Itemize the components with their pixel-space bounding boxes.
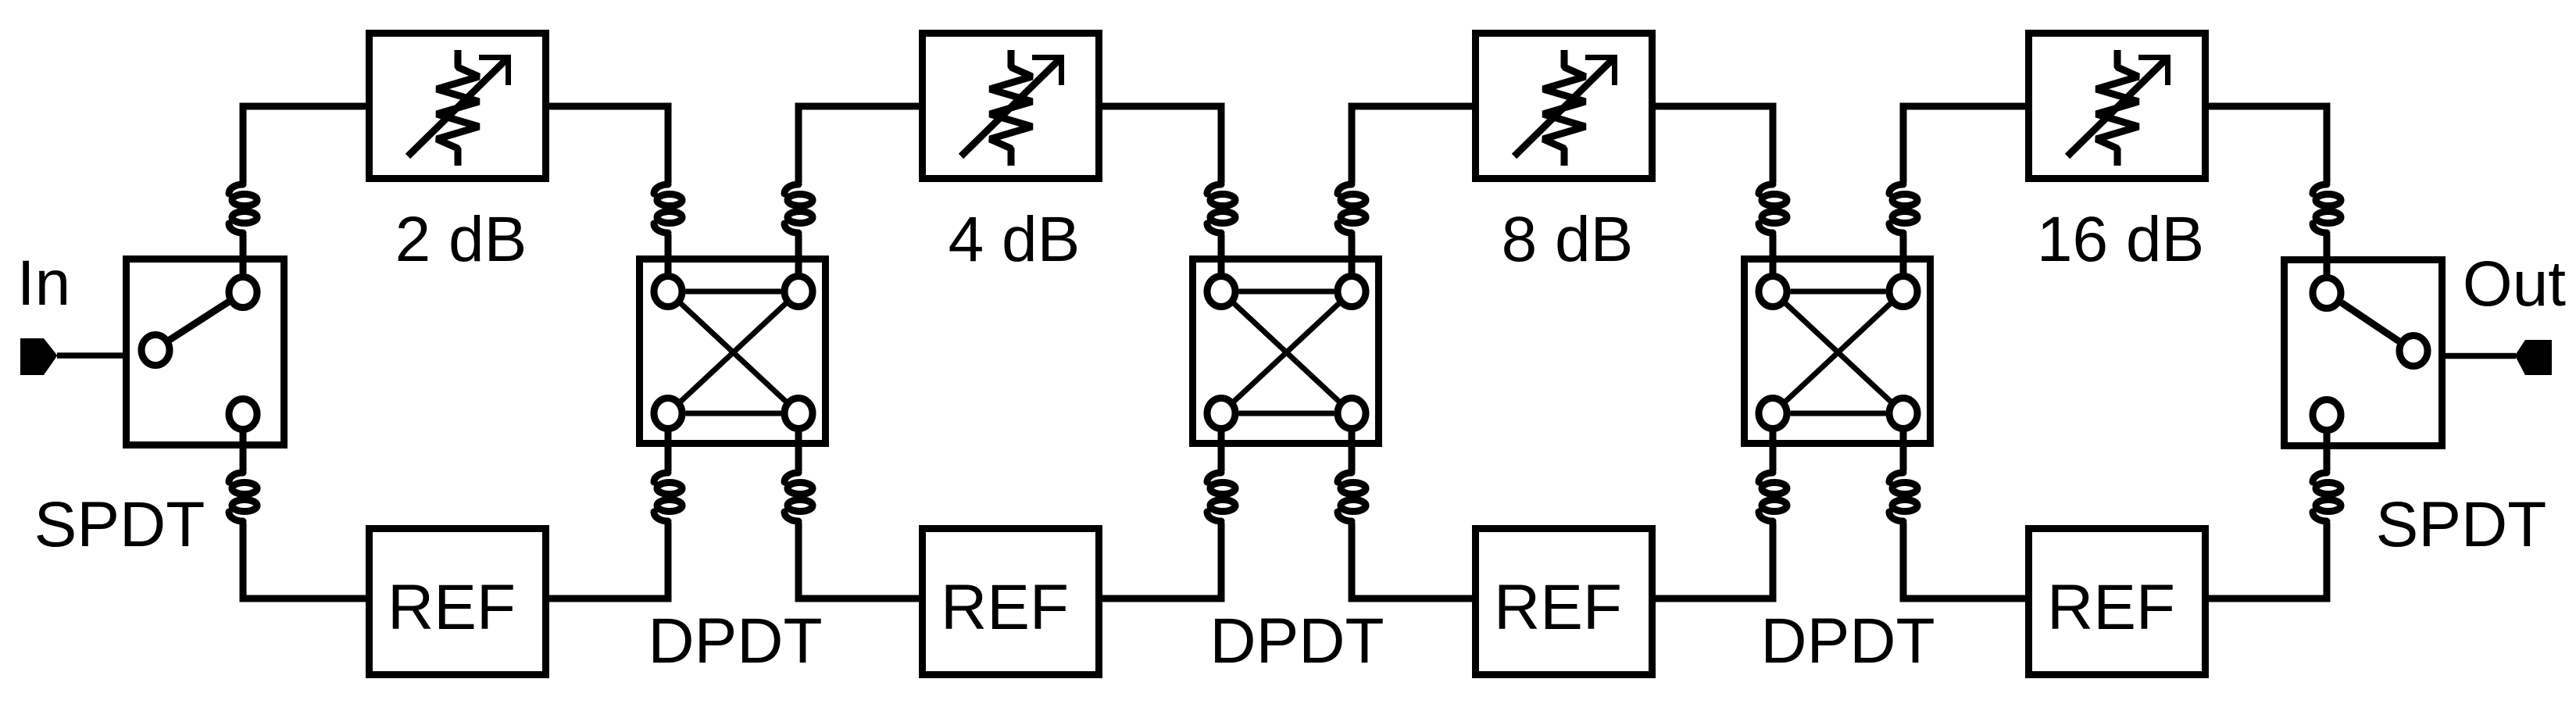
wire: A3 output to U3 top-left pole	[1654, 106, 1773, 275]
inductor L3	[654, 184, 682, 233]
wire: In terminal to S1 common	[57, 352, 123, 359]
svg-text:REF: REF	[941, 572, 1069, 643]
svg-text:REF: REF	[2047, 572, 2175, 643]
SPDT switch S1 (input switch)	[127, 259, 284, 445]
svg-text:REF: REF	[388, 572, 516, 643]
svg-text:16 dB: 16 dB	[2037, 204, 2204, 275]
reference path box REF3	[1476, 529, 1652, 675]
inductor L2	[229, 473, 257, 521]
wire: A2 output to U2 top-left pole	[1101, 106, 1221, 275]
wire: U1 bottom-right pole to REF2 input	[799, 431, 920, 599]
inductor L8	[1338, 184, 1366, 233]
inductor L16	[2313, 473, 2341, 521]
attenuator A2 (4 dB variable attenuator)	[923, 34, 1099, 179]
svg-text:8 dB: 8 dB	[1502, 204, 1634, 275]
wire: S1 top throw up to top rail into A1 input	[243, 106, 367, 274]
wire: S1 bottom throw down to bottom rail into REF1 input	[243, 432, 367, 599]
wire: U3 bottom-right pole to REF4 input	[1903, 431, 2027, 599]
attenuator A4 (16 dB variable attenuator)	[2029, 34, 2206, 179]
wire: A1 output to U1 top-left pole	[548, 106, 668, 275]
svg-text:SPDT: SPDT	[34, 489, 205, 560]
svg-text:DPDT: DPDT	[1209, 606, 1384, 677]
inductor L5	[654, 473, 682, 521]
wire: REF2 output to U2 bottom-left pole	[1101, 431, 1221, 599]
DPDT switch U2	[1193, 259, 1379, 444]
wire: REF1 output to U1 bottom-left pole	[548, 431, 668, 599]
attenuator A1 (2 dB variable attenuator)	[370, 34, 546, 179]
wire: U3 top-right pole to A4 input	[1903, 106, 2027, 275]
svg-text:In: In	[17, 248, 70, 319]
input terminal (In port)	[20, 338, 57, 375]
inductor L15	[2313, 184, 2341, 233]
wire: REF4 output to S2 bottom throw	[2207, 433, 2327, 599]
svg-text:DPDT: DPDT	[1760, 606, 1935, 677]
output terminal (Out port)	[2515, 340, 2552, 375]
SPDT switch S2 (output switch)	[2285, 260, 2442, 446]
svg-text:REF: REF	[1494, 572, 1622, 643]
wire: S2 common to Out terminal	[2446, 353, 2516, 359]
wire: U1 top-right pole to A2 input	[799, 106, 920, 275]
svg-text:SPDT: SPDT	[2376, 489, 2547, 560]
inductor L6	[784, 473, 813, 521]
reference path box REF4	[2029, 529, 2206, 675]
inductor L13	[1759, 473, 1787, 521]
wire: REF3 output to U3 bottom-left pole	[1654, 431, 1773, 599]
inductor L7	[1207, 184, 1235, 233]
inductor L10	[1338, 473, 1366, 521]
wire: U2 top-right pole to A3 input	[1352, 106, 1474, 275]
DPDT switch U1	[640, 259, 826, 444]
inductor L9	[1207, 473, 1235, 521]
svg-text:2 dB: 2 dB	[395, 204, 527, 275]
wire: U2 bottom-right pole to REF3 input	[1352, 431, 1474, 599]
inductor L12	[1889, 184, 1917, 233]
inductor L14	[1889, 473, 1917, 521]
reference path box REF2	[923, 529, 1099, 675]
attenuator A3 (8 dB variable attenuator)	[1476, 34, 1652, 179]
wire: A4 output to S2 top throw	[2207, 106, 2327, 276]
inductor L11	[1759, 184, 1787, 233]
svg-text:Out: Out	[2463, 248, 2566, 320]
DPDT switch U3	[1745, 259, 1931, 444]
reference path box REF1	[370, 529, 546, 675]
inductor L1	[229, 184, 257, 233]
inductor L4	[784, 184, 813, 233]
svg-text:DPDT: DPDT	[648, 606, 822, 677]
svg-text:4 dB: 4 dB	[949, 204, 1081, 275]
